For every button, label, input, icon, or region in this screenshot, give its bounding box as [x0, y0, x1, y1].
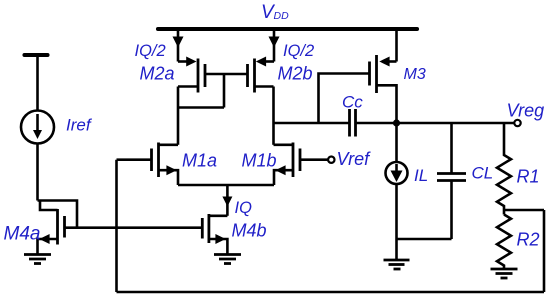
wire M2 gate link: [205, 73, 248, 76]
transistor M1a (NMOS): [157, 143, 160, 178]
svg-text:IQ/2: IQ/2: [283, 42, 314, 60]
IQ/2 current arrow left: [173, 37, 184, 48]
M2a label: [140, 63, 175, 83]
Cc label: [342, 93, 363, 112]
wire Cc to Vreg node: [356, 122, 397, 125]
M1b label: [242, 150, 277, 170]
M4a source lead: [38, 239, 58, 255]
CL label: [472, 164, 494, 183]
node Vreg junction dot: [393, 119, 400, 126]
wire M2b source from VDD: [273, 31, 276, 62]
svg-text:M1b: M1b: [242, 150, 277, 170]
ground below M4b: [214, 253, 241, 256]
VDD rail: [158, 27, 417, 31]
wire IL to ground: [395, 184, 398, 260]
wire feedback from M1a gate: [115, 160, 118, 292]
capacitor Cc: [348, 109, 351, 137]
Vref terminal circle: [328, 157, 334, 163]
Iref arrow: [36, 114, 39, 131]
IQ/2 label right: [283, 42, 314, 60]
resistor R1: [497, 123, 511, 215]
svg-text:DD: DD: [274, 10, 290, 22]
transistor M2a (gate on right): [197, 59, 200, 93]
svg-text:M4a: M4a: [4, 224, 41, 245]
transistor M4b (NMOS): [201, 218, 204, 239]
svg-text:M1a: M1a: [182, 150, 217, 170]
wire feedback right riser: [543, 210, 546, 292]
wire M4a-M4b gate row: [65, 226, 203, 229]
M2b source lead with arrow: [264, 60, 274, 63]
svg-text:IQ: IQ: [235, 199, 253, 217]
M1a drain lead: [159, 144, 179, 147]
M3 source lead with arrow: [387, 60, 397, 63]
wire tail IQ: [226, 185, 229, 216]
wire M2a diode connection: [178, 74, 224, 108]
IL label: [414, 166, 428, 185]
capacitor CL: [450, 123, 453, 174]
wire amp output to Cc: [274, 122, 350, 125]
wire feedback bottom: [117, 291, 545, 294]
IL arrow: [395, 164, 398, 171]
resistor R2: [497, 215, 511, 270]
current source Iref circle: [21, 111, 54, 144]
svg-text:M2a: M2a: [140, 63, 175, 83]
svg-text:R1: R1: [517, 167, 540, 187]
M3 gate lead: [319, 74, 370, 124]
svg-text:R2: R2: [517, 230, 540, 250]
svg-text:Cc: Cc: [342, 93, 363, 112]
svg-text:CL: CL: [472, 164, 494, 183]
transistor M1b (NMOS, mirrored): [292, 143, 295, 178]
supply stub bar above Iref: [25, 53, 48, 57]
wire M4a drain-gate diode connection: [38, 201, 78, 228]
svg-text:Vreg: Vreg: [507, 101, 545, 121]
M2b drain lead: [255, 85, 274, 88]
IQ label: [235, 199, 253, 217]
transistor M4a (NMOS, mirrored): [56, 209, 59, 245]
IQ/2 current arrow right: [269, 37, 280, 48]
M1a gate lead: [117, 158, 152, 161]
M1a source lead: [159, 170, 179, 185]
wire Iref to M4a drain node: [36, 144, 39, 201]
ground below M4a: [24, 253, 51, 256]
M4b drain lead: [209, 215, 228, 218]
Vreg label: [507, 101, 545, 121]
IQ/2 label left: [135, 42, 166, 60]
Vreg terminal circle: [514, 120, 520, 126]
transistor M2b (gate on left): [253, 59, 256, 93]
Vref label: [337, 149, 372, 169]
current source IL circle: [386, 162, 408, 184]
wire supply stub to Iref source: [36, 57, 39, 111]
svg-text:IL: IL: [414, 166, 428, 185]
ground below R2: [491, 268, 518, 271]
M1b drain lead: [274, 144, 294, 147]
M4b source lead: [209, 239, 228, 255]
M1b gate lead to Vref terminal: [300, 158, 328, 161]
wire M2b drain to M1b drain column: [272, 87, 275, 145]
M3 label: [404, 66, 426, 83]
svg-text:M2b: M2b: [278, 63, 313, 83]
svg-text:M4b: M4b: [232, 221, 267, 241]
M1a label: [182, 150, 217, 170]
VDD label: [261, 2, 289, 23]
M2a drain lead: [178, 85, 198, 88]
svg-text:IQ/2: IQ/2: [135, 42, 166, 60]
M4a label: [4, 224, 41, 245]
wire R1 R2 tap row: [504, 209, 544, 212]
svg-text:Vref: Vref: [337, 149, 372, 169]
wire Vreg node to IL: [395, 123, 398, 162]
ground below IL: [384, 259, 410, 262]
wire M2a drain to M1a drain column: [177, 87, 180, 145]
svg-text:M3: M3: [404, 66, 426, 83]
transistor M3 (PMOS pass device, gate on left): [375, 55, 378, 93]
wire IL bottom to CL bottom: [397, 238, 452, 241]
M3 source wire from VDD: [395, 31, 398, 62]
R2 label: [517, 230, 540, 250]
R1 label: [517, 167, 540, 187]
M2b label: [278, 63, 313, 83]
M1b source lead: [274, 170, 293, 185]
wire M2a source from VDD: [177, 31, 180, 62]
M4b label: [232, 221, 267, 241]
svg-text:Iref: Iref: [66, 116, 93, 135]
Iref label: [66, 116, 93, 135]
wire diff pair tail rail: [178, 184, 274, 187]
M2a source lead with arrow: [178, 60, 188, 63]
wire Vreg node to terminal: [397, 122, 515, 125]
M3 drain lead: [377, 85, 397, 123]
wire M4a drain lead notch: [40, 201, 58, 211]
